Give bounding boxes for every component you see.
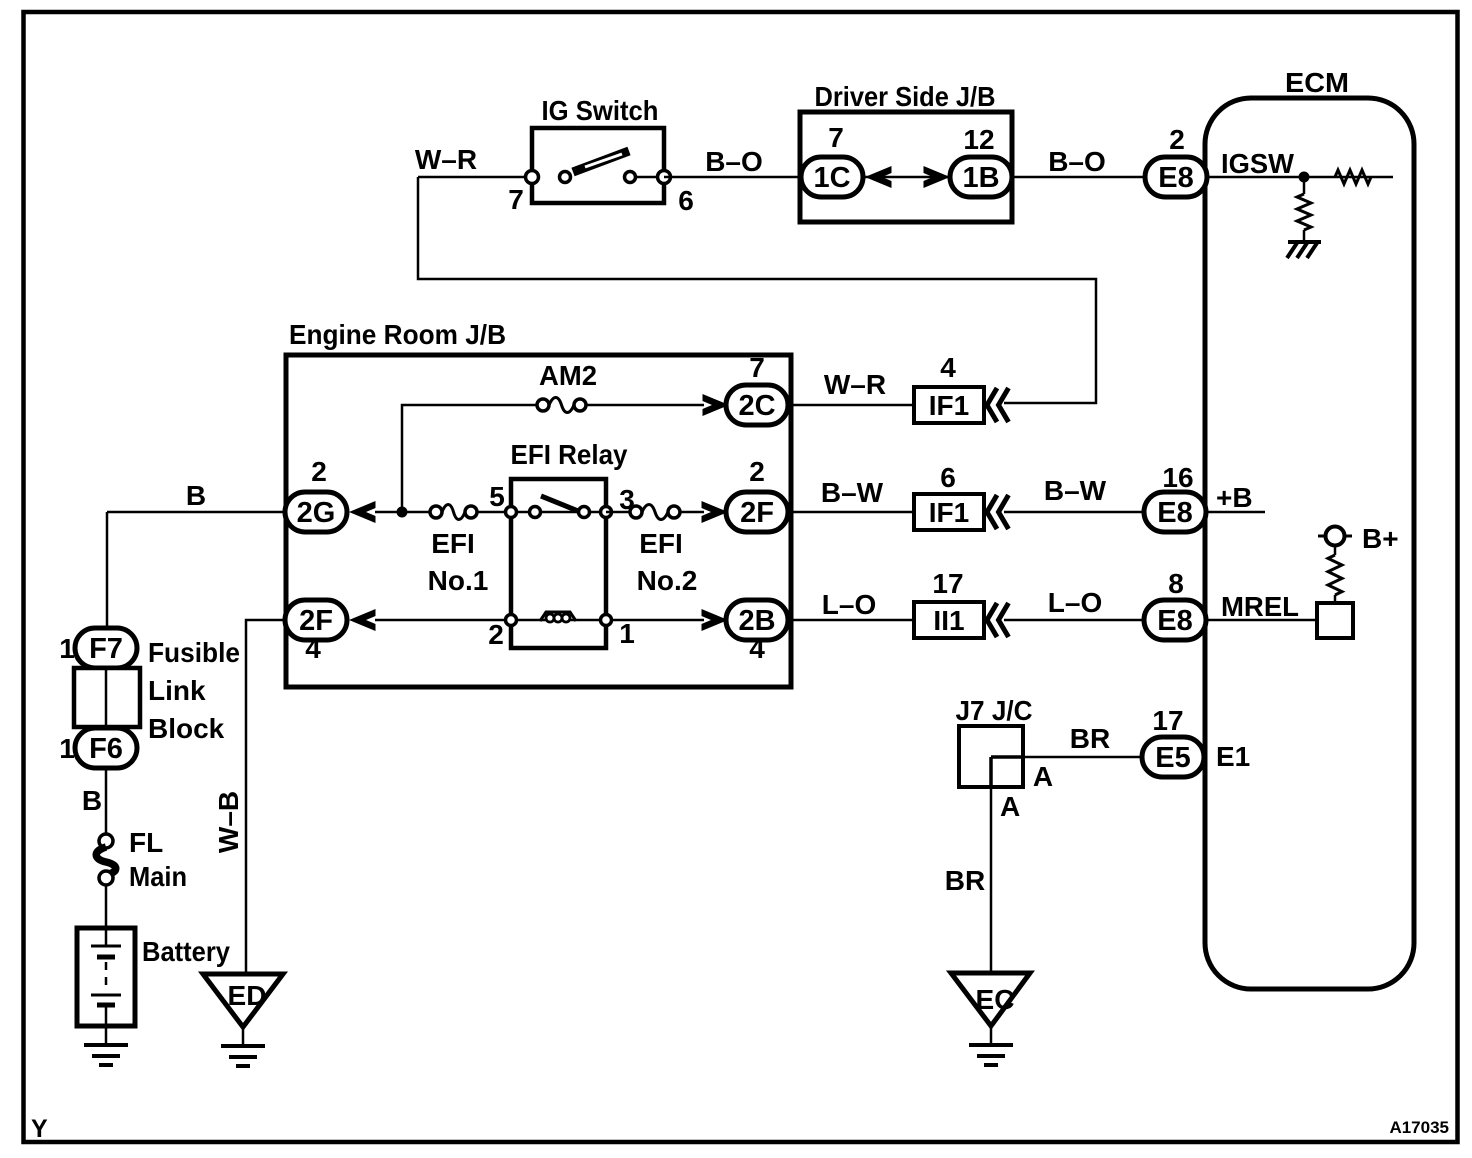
svg-text:F7: F7 <box>89 633 123 665</box>
chevron connector at IF1 pin 6 <box>987 495 1009 529</box>
ECM connector E8 pin 8 (MREL) <box>1144 600 1206 640</box>
chassis ground (IGSW internal) <box>1287 242 1321 258</box>
wire B-O IG switch pin 6 to Driver Side J/B 1C <box>664 176 802 179</box>
svg-text:EC: EC <box>976 984 1015 1015</box>
svg-text:EFI: EFI <box>431 528 475 559</box>
svg-text:BR: BR <box>1070 723 1110 754</box>
fuse EFI No.1 <box>430 505 477 520</box>
IG switch fixed contact <box>625 172 636 183</box>
wire through fusible link block <box>105 668 108 728</box>
svg-text:17: 17 <box>1152 705 1183 736</box>
ECM block <box>1205 98 1414 989</box>
IG switch blade <box>573 151 664 177</box>
svg-text:7: 7 <box>828 122 844 153</box>
svg-text:2: 2 <box>749 456 765 487</box>
connector 1B <box>950 157 1012 197</box>
junction connector IF1 pin 4 box <box>914 387 984 423</box>
svg-text:2: 2 <box>311 456 327 487</box>
EFI relay contact left <box>530 507 541 518</box>
svg-text:1: 1 <box>59 633 75 664</box>
wire B+ to resistor <box>1334 546 1337 555</box>
wire EFI No.2 fuse to 2F <box>680 511 704 514</box>
svg-text:B–W: B–W <box>821 477 884 508</box>
wire 2F pin 4 to relay pin 2 <box>375 619 511 622</box>
ground symbol EC <box>969 1045 1013 1065</box>
svg-text:6: 6 <box>678 185 694 216</box>
svg-text:E8: E8 <box>1157 497 1192 529</box>
ground symbol battery <box>84 1045 128 1065</box>
svg-text:2: 2 <box>1169 124 1185 155</box>
svg-text:Fusible: Fusible <box>148 637 240 668</box>
connector 2F (row 2F/4) <box>285 600 347 640</box>
resistor pull IGSW horizontal <box>1335 170 1371 184</box>
svg-text:F6: F6 <box>89 733 123 765</box>
wire BR J7 to E5 pin 17 <box>1023 756 1144 759</box>
Engine Room J/B box <box>286 355 791 687</box>
connector 2C <box>726 385 788 425</box>
svg-text:1B: 1B <box>962 162 999 194</box>
internal driver block (MREL) <box>1317 603 1353 638</box>
svg-text:MREL: MREL <box>1221 591 1299 622</box>
wire relay pin 1 to 2B <box>612 619 704 622</box>
svg-text:ECM: ECM <box>1285 67 1349 98</box>
wire W-R IG switch feed <box>418 176 532 179</box>
svg-text:IF1: IF1 <box>929 497 969 528</box>
ground symbol ED <box>221 1046 265 1066</box>
IG switch pin 6 terminal <box>658 171 671 184</box>
svg-text:1: 1 <box>59 733 75 764</box>
wire W-B from 2F pin 4 to ED ground <box>246 620 287 974</box>
wire IGSW internal vertical <box>1303 177 1306 194</box>
wire EC triangle to ground <box>990 1026 993 1045</box>
svg-text:7: 7 <box>508 184 524 215</box>
svg-text:L–O: L–O <box>822 589 876 620</box>
wire FL Main to battery <box>105 885 108 930</box>
EFI relay switch blade <box>541 496 578 511</box>
wire L-O 2B to II1 <box>788 619 915 622</box>
wire B-W IF1 to E8 pin 16 <box>1004 511 1146 514</box>
svg-text:E8: E8 <box>1157 605 1192 637</box>
arrow out of 2G <box>349 501 376 523</box>
svg-text:Battery: Battery <box>142 936 230 967</box>
svg-text:1: 1 <box>619 618 635 649</box>
svg-text:Engine Room J/B: Engine Room J/B <box>289 319 506 350</box>
chevron connector at IF1 pin 4 <box>987 388 1009 422</box>
svg-text:5: 5 <box>489 481 505 512</box>
svg-text:AM2: AM2 <box>539 360 597 391</box>
arrow into 1C <box>865 166 892 188</box>
wire +B internal stub <box>1207 511 1265 514</box>
svg-text:Link: Link <box>148 675 206 706</box>
svg-text:IGSW: IGSW <box>1221 148 1295 179</box>
IG switch pin 7 terminal <box>526 171 539 184</box>
connector 2F (row 2F/2) <box>726 492 788 532</box>
wire AM2 fuse to 2C <box>586 404 704 407</box>
svg-text:No.2: No.2 <box>637 565 698 596</box>
svg-text:Driver Side J/B: Driver Side J/B <box>815 81 996 112</box>
wire W-R from IG switch pin 7 down/across/up to IF1 pin 4 <box>418 177 1096 403</box>
ECM connector E8 pin 2 (IGSW) <box>1145 157 1207 197</box>
svg-text:2: 2 <box>488 619 504 650</box>
resistor B+ pullup <box>1328 555 1342 595</box>
arrow into 2F <box>702 501 729 523</box>
connector 2G <box>285 492 347 532</box>
svg-text:II1: II1 <box>933 605 964 636</box>
ground triangle EC <box>951 973 1030 1026</box>
EFI relay coil <box>540 612 576 622</box>
fuse AM2 <box>537 398 586 413</box>
svg-text:+B: +B <box>1216 482 1253 513</box>
connector 1C <box>801 157 863 197</box>
svg-text:BR: BR <box>945 865 985 896</box>
svg-text:B–W: B–W <box>1044 475 1107 506</box>
ground triangle ED <box>203 974 283 1027</box>
wire junction wire 1C to 1B <box>860 176 952 179</box>
wire B vertical to fusible link <box>106 512 109 630</box>
fusible link block body <box>74 668 140 727</box>
svg-text:B: B <box>186 480 206 511</box>
wire B F6 to FL Main <box>105 768 108 835</box>
svg-text:W–R: W–R <box>824 369 886 400</box>
svg-text:B–O: B–O <box>705 146 763 177</box>
EFI relay contact right <box>579 507 590 518</box>
svg-text:IF1: IF1 <box>929 390 969 421</box>
wire B-O 1B to ECM E8 pin 2 <box>1012 176 1146 179</box>
svg-text:W–R: W–R <box>415 144 477 175</box>
svg-text:B+: B+ <box>1362 523 1399 554</box>
wire W-R 2C to IF1 <box>788 404 915 407</box>
wire EFI No.1 fuse to relay pin 5 <box>477 511 511 514</box>
wire relay pin 3 to EFI No.2 fuse <box>606 511 630 514</box>
resistor IGSW to ground <box>1297 194 1311 230</box>
chevron connector at II1 pin 17 <box>987 603 1009 637</box>
node AM2 tap junction <box>397 507 408 518</box>
wire resistor to driver box <box>1334 595 1337 603</box>
EFI relay pin 2 terminal <box>506 615 517 626</box>
connector 2B <box>726 600 788 640</box>
ECM connector E8 pin 16 (+B) <box>1144 492 1206 532</box>
fusible link FL Main <box>96 834 116 885</box>
wire 2G to EFI No.1 fuse <box>375 511 430 514</box>
wire IGSW resistor to chassis ground <box>1303 230 1306 242</box>
wire IGSW internal wire <box>1207 176 1393 179</box>
wire B battery feed to 2G <box>107 511 287 514</box>
svg-text:4: 4 <box>749 633 765 664</box>
svg-text:B–O: B–O <box>1048 146 1106 177</box>
svg-text:A: A <box>1033 761 1053 792</box>
junction connector J7 J/C box <box>959 726 1023 787</box>
ECM connector E5 pin 17 (E1) <box>1142 737 1204 777</box>
arrow into 2C <box>703 394 730 416</box>
fusible link F7 <box>75 628 137 668</box>
svg-text:E5: E5 <box>1155 742 1190 774</box>
svg-text:L–O: L–O <box>1048 587 1102 618</box>
Driver Side J/B box <box>800 112 1012 222</box>
EFI relay pin 3 terminal <box>601 507 612 518</box>
svg-text:2G: 2G <box>297 497 336 529</box>
EFI relay pin 1 terminal <box>601 615 612 626</box>
wire L-O II1 to E8 pin 8 <box>1004 619 1146 622</box>
svg-text:E1: E1 <box>1216 741 1250 772</box>
IG switch movable contact <box>560 172 571 183</box>
svg-text:16: 16 <box>1162 462 1193 493</box>
junction connector IF1 pin 6 box <box>914 494 984 530</box>
svg-text:Y: Y <box>31 1115 48 1143</box>
node IGSW junction <box>1299 172 1310 183</box>
wire B-W 2F to IF1 <box>788 511 915 514</box>
svg-text:17: 17 <box>932 568 963 599</box>
fuse EFI No.2 <box>630 505 680 520</box>
svg-text:IG Switch: IG Switch <box>542 95 659 126</box>
svg-text:J7 J/C: J7 J/C <box>956 695 1033 726</box>
svg-text:No.1: No.1 <box>428 565 489 596</box>
arrow out of 2F pin 4 <box>349 609 376 631</box>
IG switch SW <box>532 128 664 203</box>
svg-text:4: 4 <box>940 352 956 383</box>
wire MREL internal wire <box>1207 619 1317 622</box>
svg-text:W–B: W–B <box>213 791 244 853</box>
wire BR J7 down to EC ground <box>990 787 993 973</box>
relay EFI Relay box <box>511 479 606 648</box>
junction connector II1 pin 17 box <box>914 602 984 638</box>
svg-text:EFI: EFI <box>639 528 683 559</box>
wire battery to ground <box>105 1026 108 1045</box>
svg-text:6: 6 <box>940 462 956 493</box>
wire AM2 feed from node to fuse <box>402 405 537 512</box>
arrow into 1B <box>924 166 951 188</box>
svg-text:12: 12 <box>963 124 994 155</box>
arrow into 2B <box>702 609 729 631</box>
svg-text:2F: 2F <box>740 497 774 529</box>
svg-text:A17035: A17035 <box>1389 1118 1449 1137</box>
svg-text:B: B <box>82 785 102 816</box>
battery BAT <box>77 928 135 1026</box>
svg-text:2C: 2C <box>738 390 775 422</box>
svg-text:Main: Main <box>129 861 187 892</box>
svg-text:4: 4 <box>305 633 321 664</box>
svg-text:EFI Relay: EFI Relay <box>511 439 628 470</box>
svg-text:A: A <box>1000 791 1020 822</box>
B+ supply symbol <box>1318 527 1352 546</box>
svg-text:E8: E8 <box>1158 162 1193 194</box>
fusible link F6 <box>75 728 137 768</box>
svg-text:ED: ED <box>228 980 267 1011</box>
EFI relay pin 5 terminal <box>506 507 517 518</box>
svg-text:FL: FL <box>129 827 163 858</box>
svg-text:8: 8 <box>1168 568 1184 599</box>
svg-text:1C: 1C <box>813 162 850 194</box>
wire ED triangle to ground <box>242 1027 245 1046</box>
svg-text:Block: Block <box>148 713 225 744</box>
svg-text:7: 7 <box>749 352 765 383</box>
